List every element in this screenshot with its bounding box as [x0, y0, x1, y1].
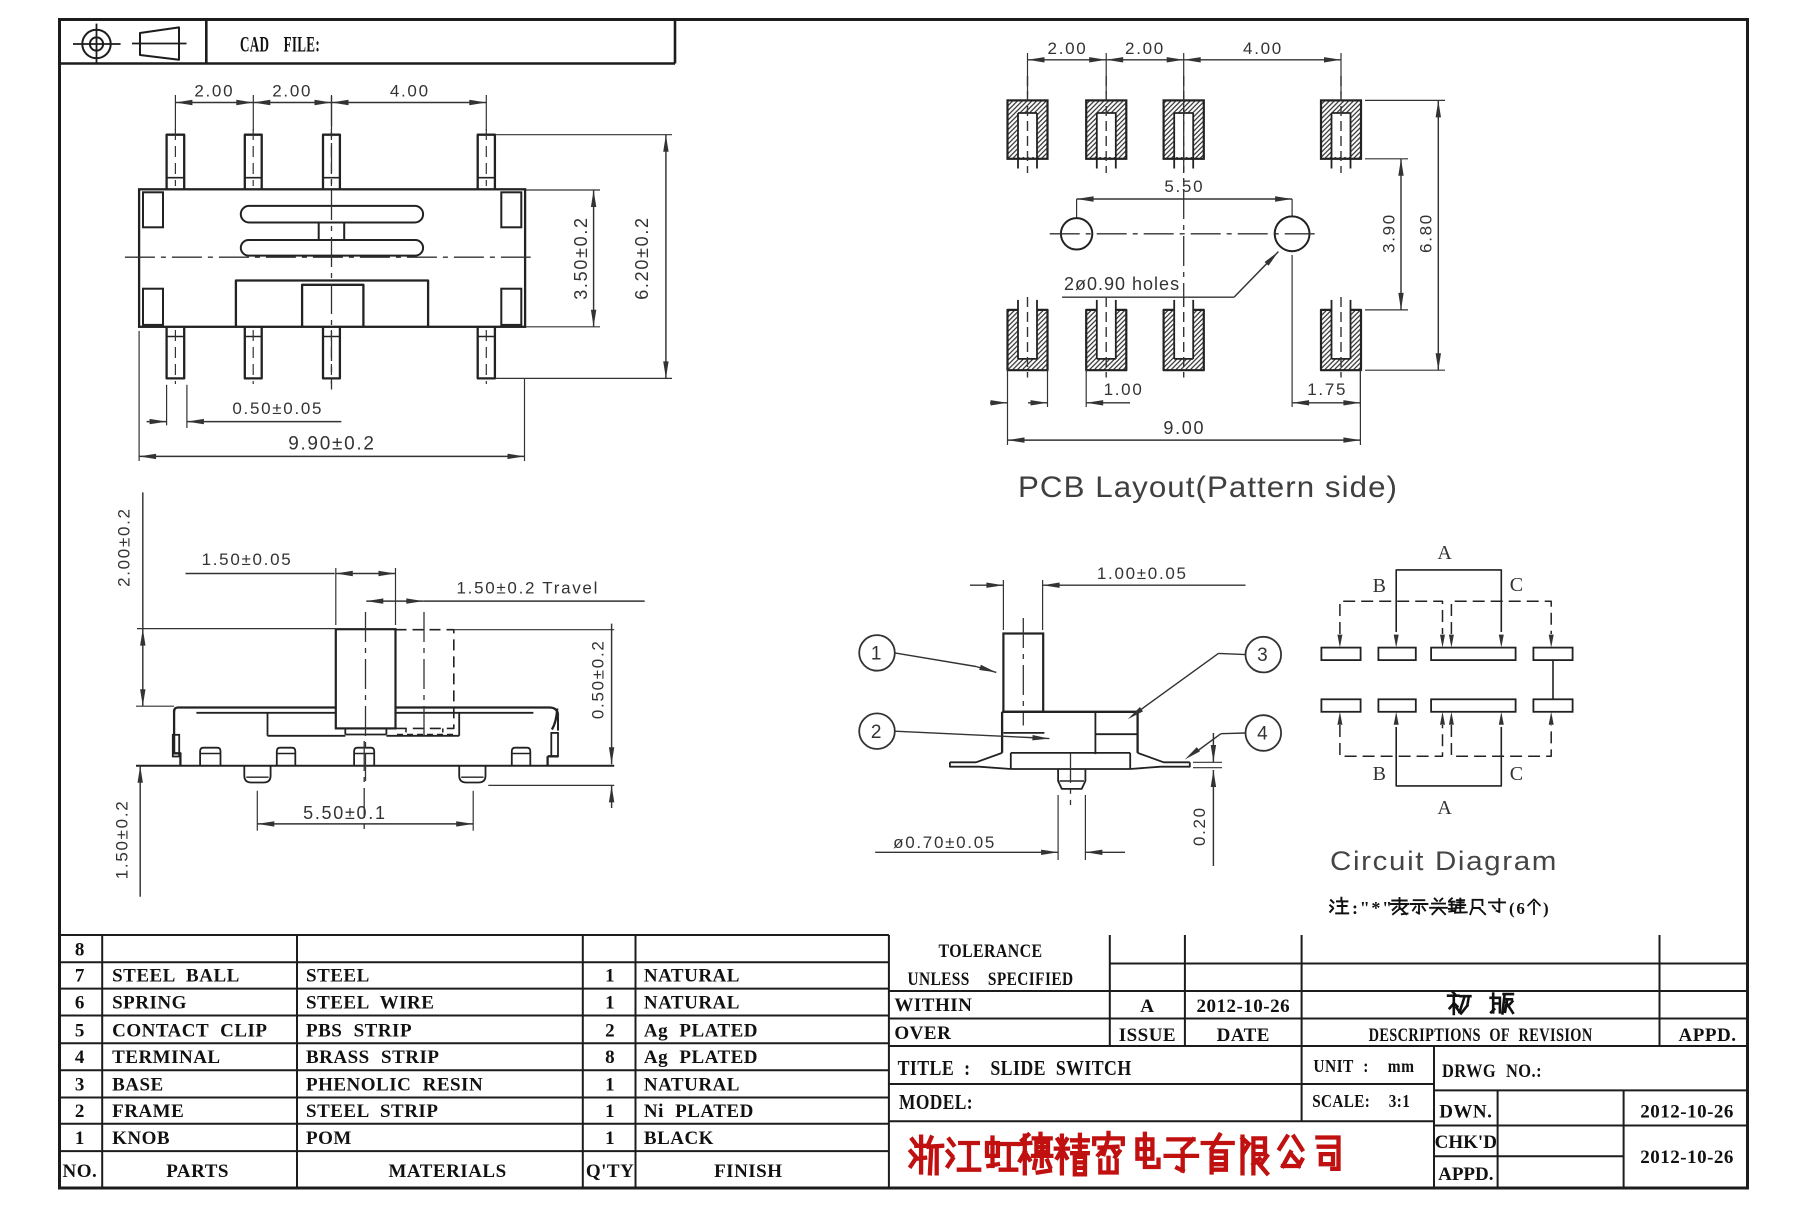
third-angle projection symbol: cone frustum [140, 27, 179, 59]
circuit: bracket C bottom (dashed) [1451, 725, 1551, 756]
front view: foot 1 [244, 766, 270, 783]
svg-text:2.00±0.2: 2.00±0.2 [115, 507, 134, 587]
svg-text:CAD FILE:: CAD FILE: [240, 32, 320, 57]
front view: terminal tab 2 [277, 748, 296, 766]
front view: terminal tab 1 [200, 748, 220, 766]
svg-text:NATURAL: NATURAL [644, 966, 740, 987]
svg-text:8: 8 [75, 939, 85, 960]
PCB layout: top pad 2 (hatched) [1086, 100, 1126, 158]
svg-text:BLACK: BLACK [644, 1128, 714, 1149]
front view: left edge notch [173, 735, 179, 757]
svg-text:1: 1 [75, 1128, 85, 1149]
svg-text:NO.: NO. [63, 1161, 98, 1182]
front view: foot 2 [459, 766, 485, 783]
revision: first edition (Chinese) [1448, 992, 1470, 1014]
PCB layout: mounting hole right [1275, 216, 1310, 251]
svg-text:A: A [1140, 996, 1154, 1017]
PCB layout: bottom pad 6 (hatched) [1086, 310, 1126, 370]
circuit pad top 2 [1378, 648, 1415, 661]
company name (red) [911, 1137, 942, 1174]
top view: bottom terminal pin 5 [167, 327, 185, 379]
circuit: bracket B top (dashed) [1340, 601, 1443, 634]
svg-text:4: 4 [75, 1047, 85, 1068]
svg-text:3.50±0.2: 3.50±0.2 [571, 216, 591, 300]
svg-text:): ) [1543, 899, 1550, 918]
side view: body outline [1002, 712, 1138, 753]
CAD FILE header box [60, 62, 676, 65]
svg-text:C: C [1510, 763, 1525, 785]
svg-text:0.50±0.05: 0.50±0.05 [232, 399, 323, 418]
top view: switch body outline [139, 189, 525, 326]
circuit pad top 1 [1321, 648, 1360, 661]
callout balloon 2 [859, 713, 895, 749]
svg-text:KNOB: KNOB [112, 1128, 170, 1149]
svg-text:0.50±0.2: 0.50±0.2 [589, 639, 608, 719]
PCB layout: bottom pad 8 (hatched) [1321, 310, 1361, 370]
svg-text:MODEL:: MODEL: [899, 1090, 973, 1114]
svg-text:BASE: BASE [112, 1075, 164, 1096]
svg-text:WITHIN: WITHIN [894, 995, 972, 1016]
top view: upper slot [241, 206, 423, 223]
svg-text:2.00: 2.00 [1048, 39, 1088, 58]
front view: terminal tab 4 [512, 748, 531, 766]
svg-text:2.00: 2.00 [194, 82, 234, 101]
circuit: bracket B bottom (dashed) [1340, 725, 1443, 756]
svg-text:3.90: 3.90 [1380, 213, 1399, 253]
svg-text:TERMINAL: TERMINAL [112, 1047, 221, 1068]
svg-text:2012-10-26: 2012-10-26 [1640, 1102, 1734, 1123]
top view: corner tab bottom-right [501, 289, 521, 325]
PCB layout: top pad 4 (hatched) [1321, 100, 1361, 158]
svg-text:DESCRIPTIONS OF REVISION: DESCRIPTIONS OF REVISION [1369, 1025, 1593, 1046]
svg-text:ø0.70±0.05: ø0.70±0.05 [893, 833, 996, 852]
svg-text:6: 6 [75, 993, 85, 1014]
front view: knob travel phantom (dashed) [396, 630, 454, 729]
svg-text:A: A [1437, 542, 1453, 564]
circuit pad bottom 4 [1533, 699, 1572, 712]
top view: knob window rectangle [236, 281, 428, 327]
svg-text:B: B [1373, 763, 1388, 785]
svg-text:SCALE: 3:1: SCALE: 3:1 [1312, 1091, 1410, 1111]
top view: horizontal centerline [125, 256, 531, 258]
svg-text:DATE: DATE [1217, 1025, 1270, 1046]
side view: base under knob line [1003, 732, 1044, 734]
front view: body top line [174, 708, 558, 716]
top view: top terminal pin 1 [167, 135, 185, 190]
top view: vertical centerline [331, 96, 333, 390]
svg-text:MATERIALS: MATERIALS [389, 1161, 507, 1182]
svg-text:PARTS: PARTS [166, 1161, 229, 1182]
svg-text:2.00: 2.00 [272, 82, 312, 101]
front view: center terminal centerline [363, 741, 365, 830]
svg-text:Q'TY: Q'TY [586, 1161, 634, 1182]
side view: pin centerline [1070, 753, 1072, 805]
circuit: bracket A bottom (solid) [1396, 727, 1501, 786]
front view: knob bottom tab [344, 728, 346, 734]
side view: base right block [1095, 712, 1137, 754]
svg-text:NATURAL: NATURAL [644, 993, 740, 1014]
svg-text:Ni PLATED: Ni PLATED [644, 1101, 754, 1122]
svg-text:1: 1 [605, 966, 615, 987]
top view: lower slot [241, 240, 423, 256]
top view: top terminal pin 2 [245, 135, 262, 190]
svg-text:Ag PLATED: Ag PLATED [644, 1047, 758, 1068]
svg-text:2ø0.90 holes: 2ø0.90 holes [1064, 274, 1180, 294]
svg-text:4.00: 4.00 [390, 82, 430, 101]
svg-text:6.20±0.2: 6.20±0.2 [632, 216, 652, 300]
front view: knob window verticals [267, 713, 269, 736]
svg-text:PHENOLIC RESIN: PHENOLIC RESIN [306, 1075, 483, 1096]
svg-text:2012-10-26: 2012-10-26 [1196, 996, 1290, 1017]
svg-text:7: 7 [75, 966, 85, 987]
circuit pad bottom 1 [1321, 699, 1360, 712]
PCB layout: hole centerline [1050, 233, 1319, 235]
svg-text:(6: (6 [1509, 899, 1527, 918]
svg-text::"*": :"*" [1352, 898, 1394, 918]
svg-text:BRASS STRIP: BRASS STRIP [306, 1047, 439, 1068]
svg-text:ISSUE: ISSUE [1119, 1025, 1176, 1046]
PCB layout: top pad 1 (hatched) [1008, 100, 1048, 158]
PCB layout: bottom pad 7 (hatched) [1164, 310, 1204, 370]
svg-text:1.50±0.2: 1.50±0.2 [112, 800, 131, 880]
top view: bottom terminal pin 6 [245, 327, 262, 379]
circuit pad bottom 3 [1431, 699, 1516, 712]
svg-text:A: A [1437, 797, 1453, 819]
top view: corner tab top-right [501, 192, 521, 227]
top view: corner tab top-left [143, 192, 163, 227]
svg-text:5.50: 5.50 [1164, 177, 1204, 196]
svg-text:5.50±0.1: 5.50±0.1 [303, 803, 387, 823]
PCB layout: top pad 3 (hatched) [1164, 100, 1204, 158]
svg-text:1: 1 [605, 1101, 615, 1122]
svg-text:STEEL STRIP: STEEL STRIP [306, 1101, 438, 1122]
svg-text:OVER: OVER [894, 1023, 951, 1044]
svg-text:FINISH: FINISH [714, 1161, 782, 1182]
svg-text:6.80: 6.80 [1417, 213, 1436, 253]
note: key dimensions (Chinese) [1330, 898, 1348, 914]
front view: knob (solid position) [336, 629, 396, 728]
PCB layout: vertical centerline [1183, 95, 1185, 299]
svg-text:POM: POM [306, 1128, 352, 1149]
svg-text:CHK'D: CHK'D [1435, 1132, 1497, 1153]
front view: phantom knob bottom tab (dashed) [405, 728, 407, 734]
svg-text:1: 1 [871, 644, 883, 665]
top view: bottom terminal pin 8 [478, 327, 495, 379]
circuit: bracket C top (dashed) [1451, 601, 1551, 634]
svg-text:4: 4 [1257, 724, 1269, 745]
front view: body right edge [552, 709, 557, 730]
svg-text:UNIT : mm: UNIT : mm [1313, 1056, 1414, 1076]
svg-text:1: 1 [605, 1128, 615, 1149]
svg-text:5: 5 [75, 1020, 85, 1041]
svg-text:SPRING: SPRING [112, 993, 187, 1014]
svg-text:STEEL BALL: STEEL BALL [112, 966, 240, 987]
svg-text:TITLE : SLIDE SWITCH: TITLE : SLIDE SWITCH [898, 1056, 1132, 1080]
svg-text:Circuit Diagram: Circuit Diagram [1330, 846, 1558, 876]
svg-text:STEEL: STEEL [306, 966, 370, 987]
svg-text:PCB Layout(Pattern side): PCB Layout(Pattern side) [1018, 471, 1398, 504]
front view: terminal tab 3 [354, 748, 374, 766]
svg-text:B: B [1373, 575, 1388, 597]
circuit pad top 4 [1533, 648, 1572, 661]
parts table grid [60, 934, 889, 936]
svg-text:CONTACT CLIP: CONTACT CLIP [112, 1020, 267, 1041]
side view: knob centerline [1022, 618, 1024, 726]
svg-text:4.00: 4.00 [1243, 39, 1283, 58]
svg-text:3: 3 [1257, 645, 1269, 666]
PCB layout: bottom pad 5 (hatched) [1008, 310, 1048, 370]
svg-text:2: 2 [75, 1101, 85, 1122]
svg-text:1.50±0.2 Travel: 1.50±0.2 Travel [457, 579, 600, 598]
circuit: bracket A top (solid) [1396, 570, 1501, 632]
svg-text:PBS STRIP: PBS STRIP [306, 1020, 412, 1041]
front view: knob centerline [365, 612, 367, 781]
svg-text:1.00±0.05: 1.00±0.05 [1097, 564, 1188, 583]
top view: knob neck between slots [318, 223, 320, 241]
svg-text:1: 1 [605, 993, 615, 1014]
callout balloon 1 [859, 635, 895, 671]
svg-text:UNLESS SPECIFIED: UNLESS SPECIFIED [908, 969, 1074, 990]
svg-text:1: 1 [605, 1075, 615, 1096]
svg-text:8: 8 [605, 1047, 615, 1068]
side view: left wing terminal [950, 753, 1011, 769]
svg-text:2: 2 [605, 1020, 615, 1041]
title block grid [1110, 963, 1748, 965]
circuit pad top 3 [1431, 648, 1516, 661]
top view: bottom terminal pin 7 [323, 327, 340, 379]
svg-text:Ag PLATED: Ag PLATED [644, 1020, 758, 1041]
svg-text:0.20: 0.20 [1190, 806, 1209, 846]
circuit pad bottom 2 [1378, 699, 1415, 712]
front view: right edge notch [551, 733, 558, 756]
PCB layout: mounting hole left [1061, 218, 1092, 249]
callout balloon 3 [1246, 637, 1282, 673]
side view: right wing terminal [1130, 753, 1190, 769]
svg-text:2012-10-26: 2012-10-26 [1640, 1147, 1734, 1168]
svg-text:3: 3 [75, 1075, 85, 1096]
top view: corner tab bottom-left [143, 289, 163, 325]
svg-text:APPD.: APPD. [1679, 1025, 1737, 1046]
svg-text:2: 2 [871, 722, 883, 743]
svg-text:9.00: 9.00 [1163, 418, 1205, 438]
svg-text:1.75: 1.75 [1307, 380, 1347, 399]
side view: knob [1003, 634, 1043, 712]
svg-text:FRAME: FRAME [112, 1101, 184, 1122]
svg-text:9.90±0.2: 9.90±0.2 [288, 434, 375, 455]
svg-text:STEEL WIRE: STEEL WIRE [306, 993, 434, 1014]
svg-text:TOLERANCE: TOLERANCE [939, 941, 1043, 962]
svg-text:1.00: 1.00 [1104, 380, 1144, 399]
callout balloon 4 [1246, 715, 1282, 751]
top view: knob block [302, 285, 363, 327]
svg-text:DWN.: DWN. [1439, 1102, 1492, 1123]
front view: phantom knob centerline [423, 612, 425, 742]
svg-text:DRWG NO.:: DRWG NO.: [1442, 1062, 1542, 1082]
front view: body inner top line [196, 712, 533, 714]
svg-text:APPD.: APPD. [1438, 1164, 1493, 1185]
front view: body left edge [174, 710, 180, 766]
circuit: common link right pads [1552, 660, 1554, 699]
third-angle projection symbol: target circle [82, 30, 110, 58]
svg-text:2.00: 2.00 [1125, 39, 1165, 58]
top view: top terminal pin 3 [323, 135, 340, 190]
side view: bottom plate [1011, 753, 1130, 769]
side view: bottom pin [1058, 769, 1085, 789]
top view: top terminal pin 4 [478, 135, 495, 190]
front view: seating plane line [136, 765, 614, 767]
svg-text:1.50±0.05: 1.50±0.05 [202, 550, 293, 569]
svg-text:NATURAL: NATURAL [644, 1075, 740, 1096]
svg-text:C: C [1510, 574, 1525, 596]
side view: wing tip extension lines [1193, 761, 1222, 763]
